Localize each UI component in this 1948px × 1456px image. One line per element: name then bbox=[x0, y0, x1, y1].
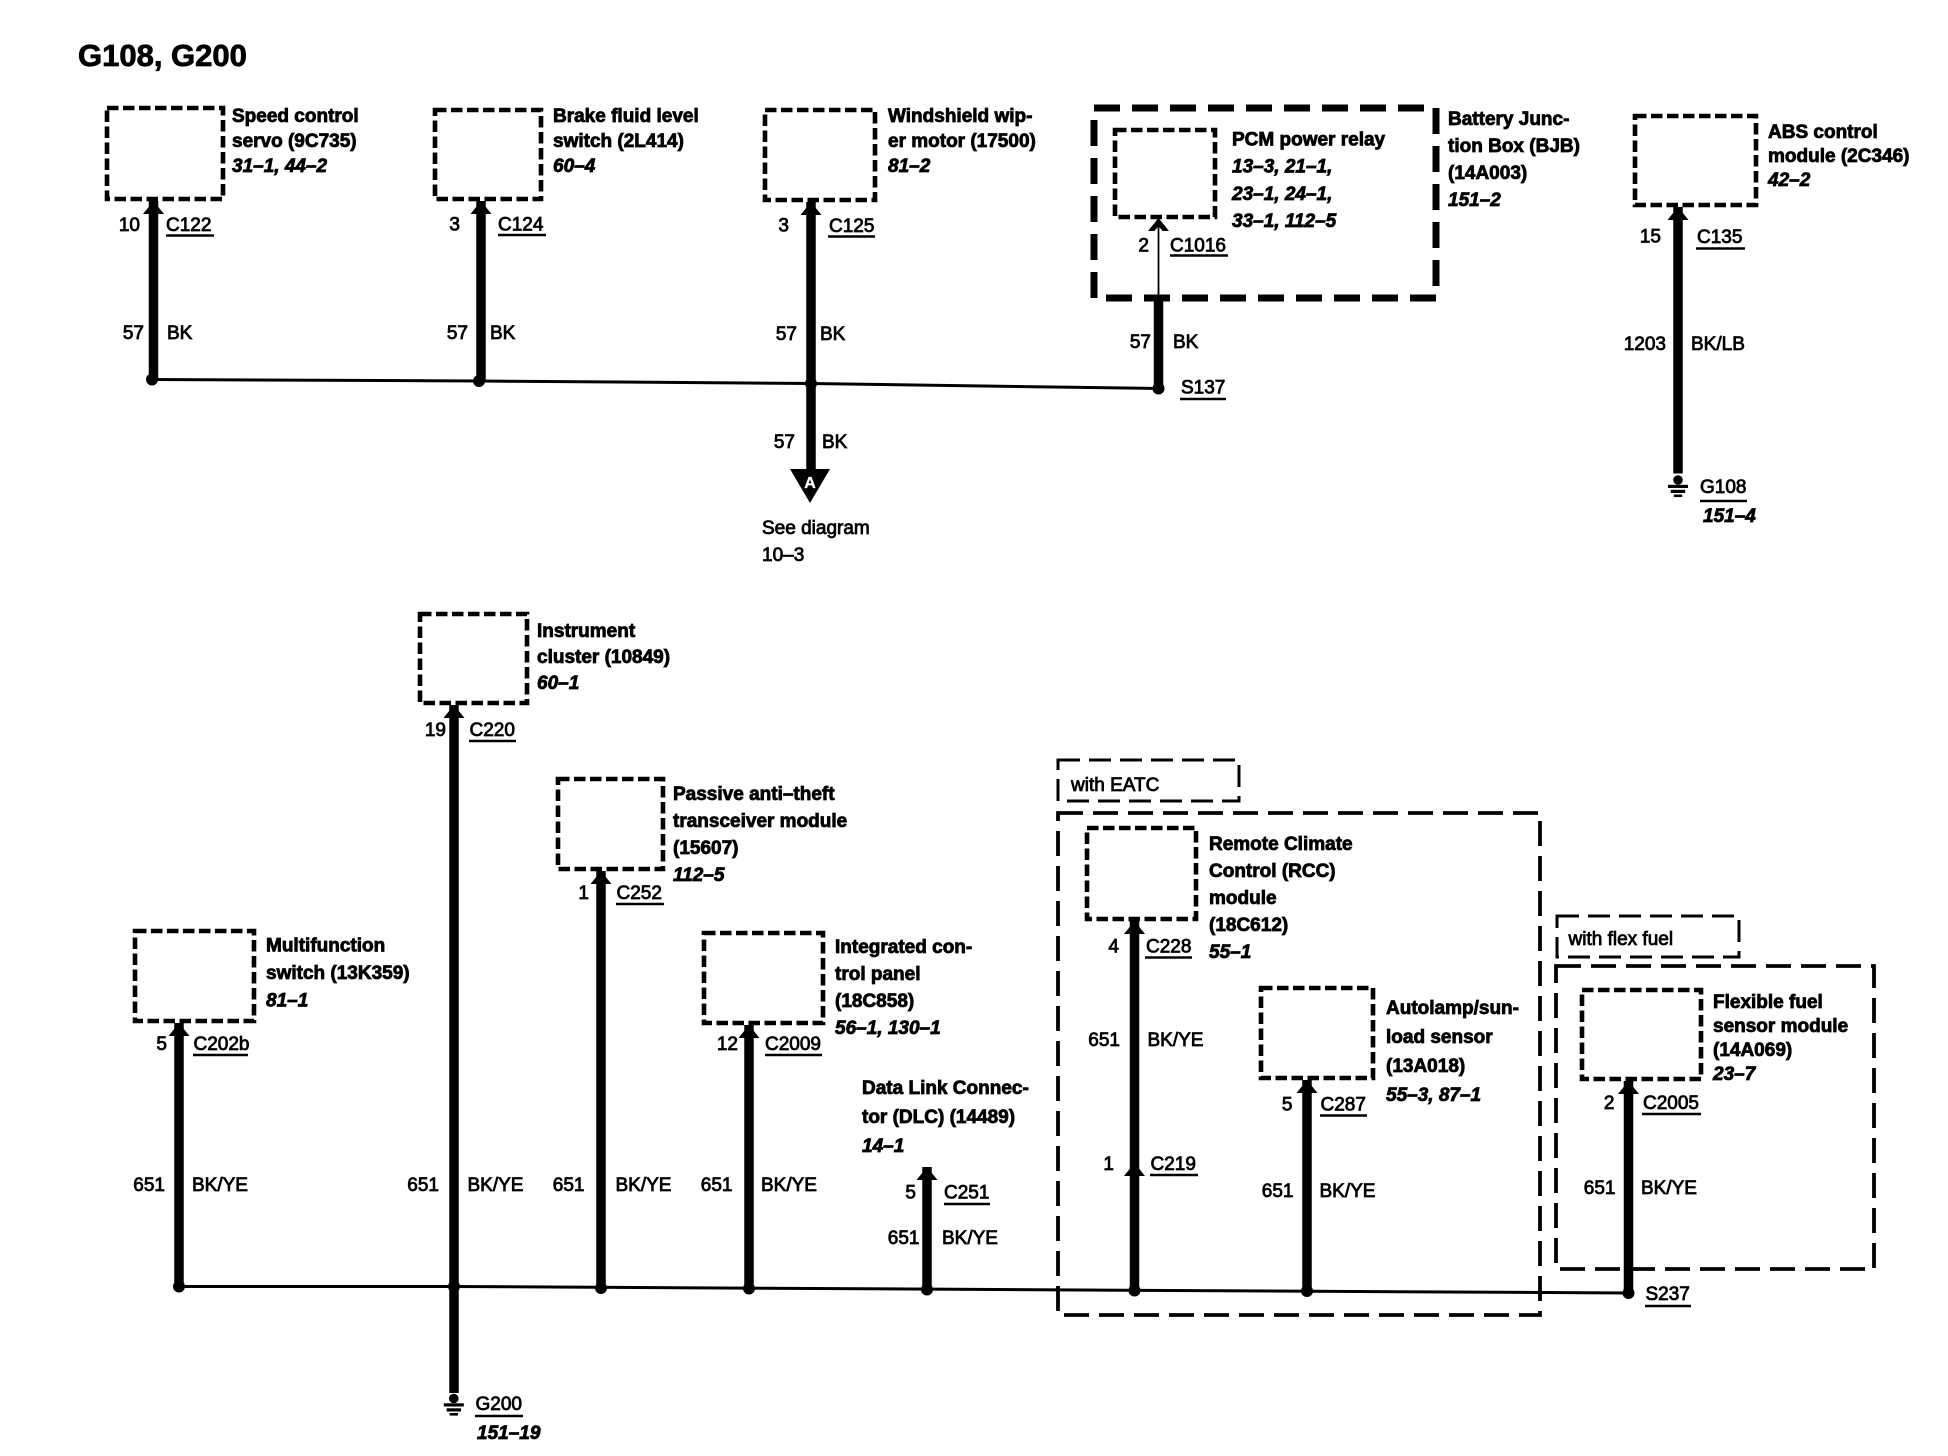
svg-text:(15607): (15607) bbox=[673, 838, 739, 859]
svg-text:S237: S237 bbox=[1646, 1284, 1690, 1305]
svg-text:57: 57 bbox=[776, 324, 797, 345]
svg-text:81–1: 81–1 bbox=[266, 991, 308, 1012]
svg-text:(13A018): (13A018) bbox=[1386, 1056, 1465, 1077]
svg-text:BK: BK bbox=[490, 323, 516, 344]
svg-text:57: 57 bbox=[774, 432, 795, 453]
svg-text:with flex fuel: with flex fuel bbox=[1568, 929, 1674, 950]
svg-text:BK: BK bbox=[1173, 332, 1199, 353]
svg-text:G200: G200 bbox=[476, 1394, 522, 1415]
svg-text:C135: C135 bbox=[1697, 227, 1742, 248]
svg-text:A: A bbox=[804, 475, 816, 492]
svg-text:Remote Climate: Remote Climate bbox=[1209, 834, 1353, 855]
svg-text:13–3, 21–1,: 13–3, 21–1, bbox=[1232, 157, 1332, 178]
svg-text:load sensor: load sensor bbox=[1386, 1027, 1493, 1048]
svg-text:trol panel: trol panel bbox=[835, 964, 921, 985]
svg-text:C252: C252 bbox=[617, 883, 662, 904]
svg-text:See diagram: See diagram bbox=[762, 518, 870, 539]
svg-text:651: 651 bbox=[553, 1175, 585, 1196]
svg-text:BK/YE: BK/YE bbox=[1148, 1030, 1204, 1051]
svg-text:PCM power relay: PCM power relay bbox=[1232, 130, 1386, 151]
svg-text:3: 3 bbox=[449, 215, 460, 236]
svg-text:5: 5 bbox=[1282, 1095, 1293, 1116]
svg-text:15: 15 bbox=[1640, 227, 1661, 248]
svg-text:Brake fluid level: Brake fluid level bbox=[553, 106, 699, 127]
svg-text:Multifunction: Multifunction bbox=[266, 936, 385, 957]
svg-text:BK: BK bbox=[167, 323, 193, 344]
svg-text:151–2: 151–2 bbox=[1448, 190, 1501, 211]
svg-text:3: 3 bbox=[778, 216, 789, 237]
svg-text:sensor module: sensor module bbox=[1713, 1016, 1848, 1037]
svg-text:ABS control: ABS control bbox=[1768, 122, 1878, 143]
svg-text:BK/YE: BK/YE bbox=[616, 1175, 672, 1196]
svg-text:(18C612): (18C612) bbox=[1209, 915, 1288, 936]
svg-text:G108: G108 bbox=[1700, 477, 1746, 498]
svg-text:transceiver module: transceiver module bbox=[673, 811, 847, 832]
svg-text:60–1: 60–1 bbox=[537, 673, 579, 694]
svg-text:servo (9C735): servo (9C735) bbox=[232, 131, 357, 152]
svg-text:C251: C251 bbox=[944, 1183, 989, 1204]
svg-text:tor (DLC) (14489): tor (DLC) (14489) bbox=[862, 1107, 1015, 1128]
svg-text:BK/LB: BK/LB bbox=[1691, 334, 1745, 355]
svg-text:57: 57 bbox=[1130, 332, 1151, 353]
svg-text:C202b: C202b bbox=[194, 1034, 250, 1055]
svg-text:S137: S137 bbox=[1181, 378, 1225, 399]
svg-text:BK/YE: BK/YE bbox=[468, 1175, 524, 1196]
svg-text:BK: BK bbox=[820, 324, 846, 345]
svg-text:Integrated con-: Integrated con- bbox=[835, 937, 972, 958]
svg-text:651: 651 bbox=[407, 1175, 439, 1196]
svg-text:BK/YE: BK/YE bbox=[1641, 1178, 1697, 1199]
svg-text:Speed control: Speed control bbox=[232, 106, 359, 127]
svg-text:651: 651 bbox=[1088, 1030, 1120, 1051]
svg-text:55–3, 87–1: 55–3, 87–1 bbox=[1386, 1085, 1481, 1106]
svg-text:81–2: 81–2 bbox=[888, 156, 931, 177]
svg-text:C124: C124 bbox=[498, 215, 544, 236]
svg-text:(18C858): (18C858) bbox=[835, 991, 914, 1012]
svg-text:er motor (17500): er motor (17500) bbox=[888, 131, 1036, 152]
svg-text:Battery Junc-: Battery Junc- bbox=[1448, 109, 1569, 130]
svg-text:C219: C219 bbox=[1151, 1154, 1196, 1175]
svg-text:C228: C228 bbox=[1146, 937, 1191, 958]
svg-text:Data Link Connec-: Data Link Connec- bbox=[862, 1078, 1029, 1099]
svg-text:switch (2L414): switch (2L414) bbox=[553, 131, 684, 152]
svg-text:Passive anti–theft: Passive anti–theft bbox=[673, 784, 835, 805]
svg-text:57: 57 bbox=[447, 323, 468, 344]
svg-text:1: 1 bbox=[578, 883, 589, 904]
svg-text:151–19: 151–19 bbox=[477, 1423, 541, 1444]
svg-text:Windshield wip-: Windshield wip- bbox=[888, 106, 1032, 127]
svg-text:55–1: 55–1 bbox=[1209, 942, 1251, 963]
svg-text:2: 2 bbox=[1138, 236, 1149, 257]
svg-text:5: 5 bbox=[905, 1183, 916, 1204]
svg-text:14–1: 14–1 bbox=[862, 1136, 904, 1157]
svg-text:57: 57 bbox=[123, 323, 144, 344]
svg-text:651: 651 bbox=[701, 1175, 733, 1196]
svg-text:C287: C287 bbox=[1321, 1095, 1366, 1116]
svg-text:23–7: 23–7 bbox=[1712, 1064, 1757, 1085]
svg-text:Autolamp/sun-: Autolamp/sun- bbox=[1386, 998, 1519, 1019]
svg-text:BK/YE: BK/YE bbox=[192, 1175, 248, 1196]
svg-text:C1016: C1016 bbox=[1170, 236, 1226, 257]
svg-text:BK/YE: BK/YE bbox=[1320, 1181, 1376, 1202]
svg-text:switch (13K359): switch (13K359) bbox=[266, 963, 410, 984]
svg-text:BK/YE: BK/YE bbox=[942, 1228, 998, 1249]
svg-text:C125: C125 bbox=[829, 216, 874, 237]
svg-text:23–1, 24–1,: 23–1, 24–1, bbox=[1231, 184, 1332, 205]
svg-text:Instrument: Instrument bbox=[537, 621, 636, 642]
svg-text:C220: C220 bbox=[470, 720, 515, 741]
svg-text:(14A003): (14A003) bbox=[1448, 163, 1527, 184]
svg-text:33–1, 112–5: 33–1, 112–5 bbox=[1232, 211, 1337, 232]
svg-text:cluster (10849): cluster (10849) bbox=[537, 647, 670, 668]
svg-text:C2005: C2005 bbox=[1643, 1093, 1699, 1114]
svg-text:10: 10 bbox=[119, 215, 140, 236]
svg-text:10–3: 10–3 bbox=[762, 545, 804, 566]
svg-text:56–1, 130–1: 56–1, 130–1 bbox=[835, 1018, 941, 1039]
svg-text:1: 1 bbox=[1103, 1154, 1114, 1175]
svg-text:tion Box (BJB): tion Box (BJB) bbox=[1448, 136, 1580, 157]
svg-text:Control (RCC): Control (RCC) bbox=[1209, 861, 1336, 882]
svg-text:31–1, 44–2: 31–1, 44–2 bbox=[232, 156, 328, 177]
svg-text:651: 651 bbox=[1262, 1181, 1294, 1202]
svg-text:151–4: 151–4 bbox=[1703, 506, 1756, 527]
svg-text:(14A069): (14A069) bbox=[1713, 1040, 1792, 1061]
svg-text:5: 5 bbox=[156, 1034, 167, 1055]
svg-text:12: 12 bbox=[717, 1034, 738, 1055]
svg-text:4: 4 bbox=[1108, 937, 1119, 958]
svg-text:G108, G200: G108, G200 bbox=[78, 38, 247, 73]
svg-text:651: 651 bbox=[133, 1175, 165, 1196]
svg-text:BK: BK bbox=[822, 432, 848, 453]
svg-text:651: 651 bbox=[1584, 1178, 1616, 1199]
svg-text:19: 19 bbox=[425, 720, 446, 741]
svg-text:module: module bbox=[1209, 888, 1277, 909]
svg-text:module (2C346): module (2C346) bbox=[1768, 146, 1909, 167]
svg-text:BK/YE: BK/YE bbox=[761, 1175, 817, 1196]
svg-text:C2009: C2009 bbox=[765, 1034, 821, 1055]
svg-text:112–5: 112–5 bbox=[673, 865, 725, 886]
svg-text:with EATC: with EATC bbox=[1070, 775, 1159, 796]
svg-text:42–2: 42–2 bbox=[1767, 170, 1811, 191]
svg-text:Flexible fuel: Flexible fuel bbox=[1713, 992, 1823, 1013]
svg-text:C122: C122 bbox=[166, 215, 211, 236]
svg-text:651: 651 bbox=[888, 1228, 920, 1249]
svg-text:60–4: 60–4 bbox=[553, 156, 596, 177]
svg-text:1203: 1203 bbox=[1624, 334, 1666, 355]
svg-text:2: 2 bbox=[1604, 1093, 1615, 1114]
